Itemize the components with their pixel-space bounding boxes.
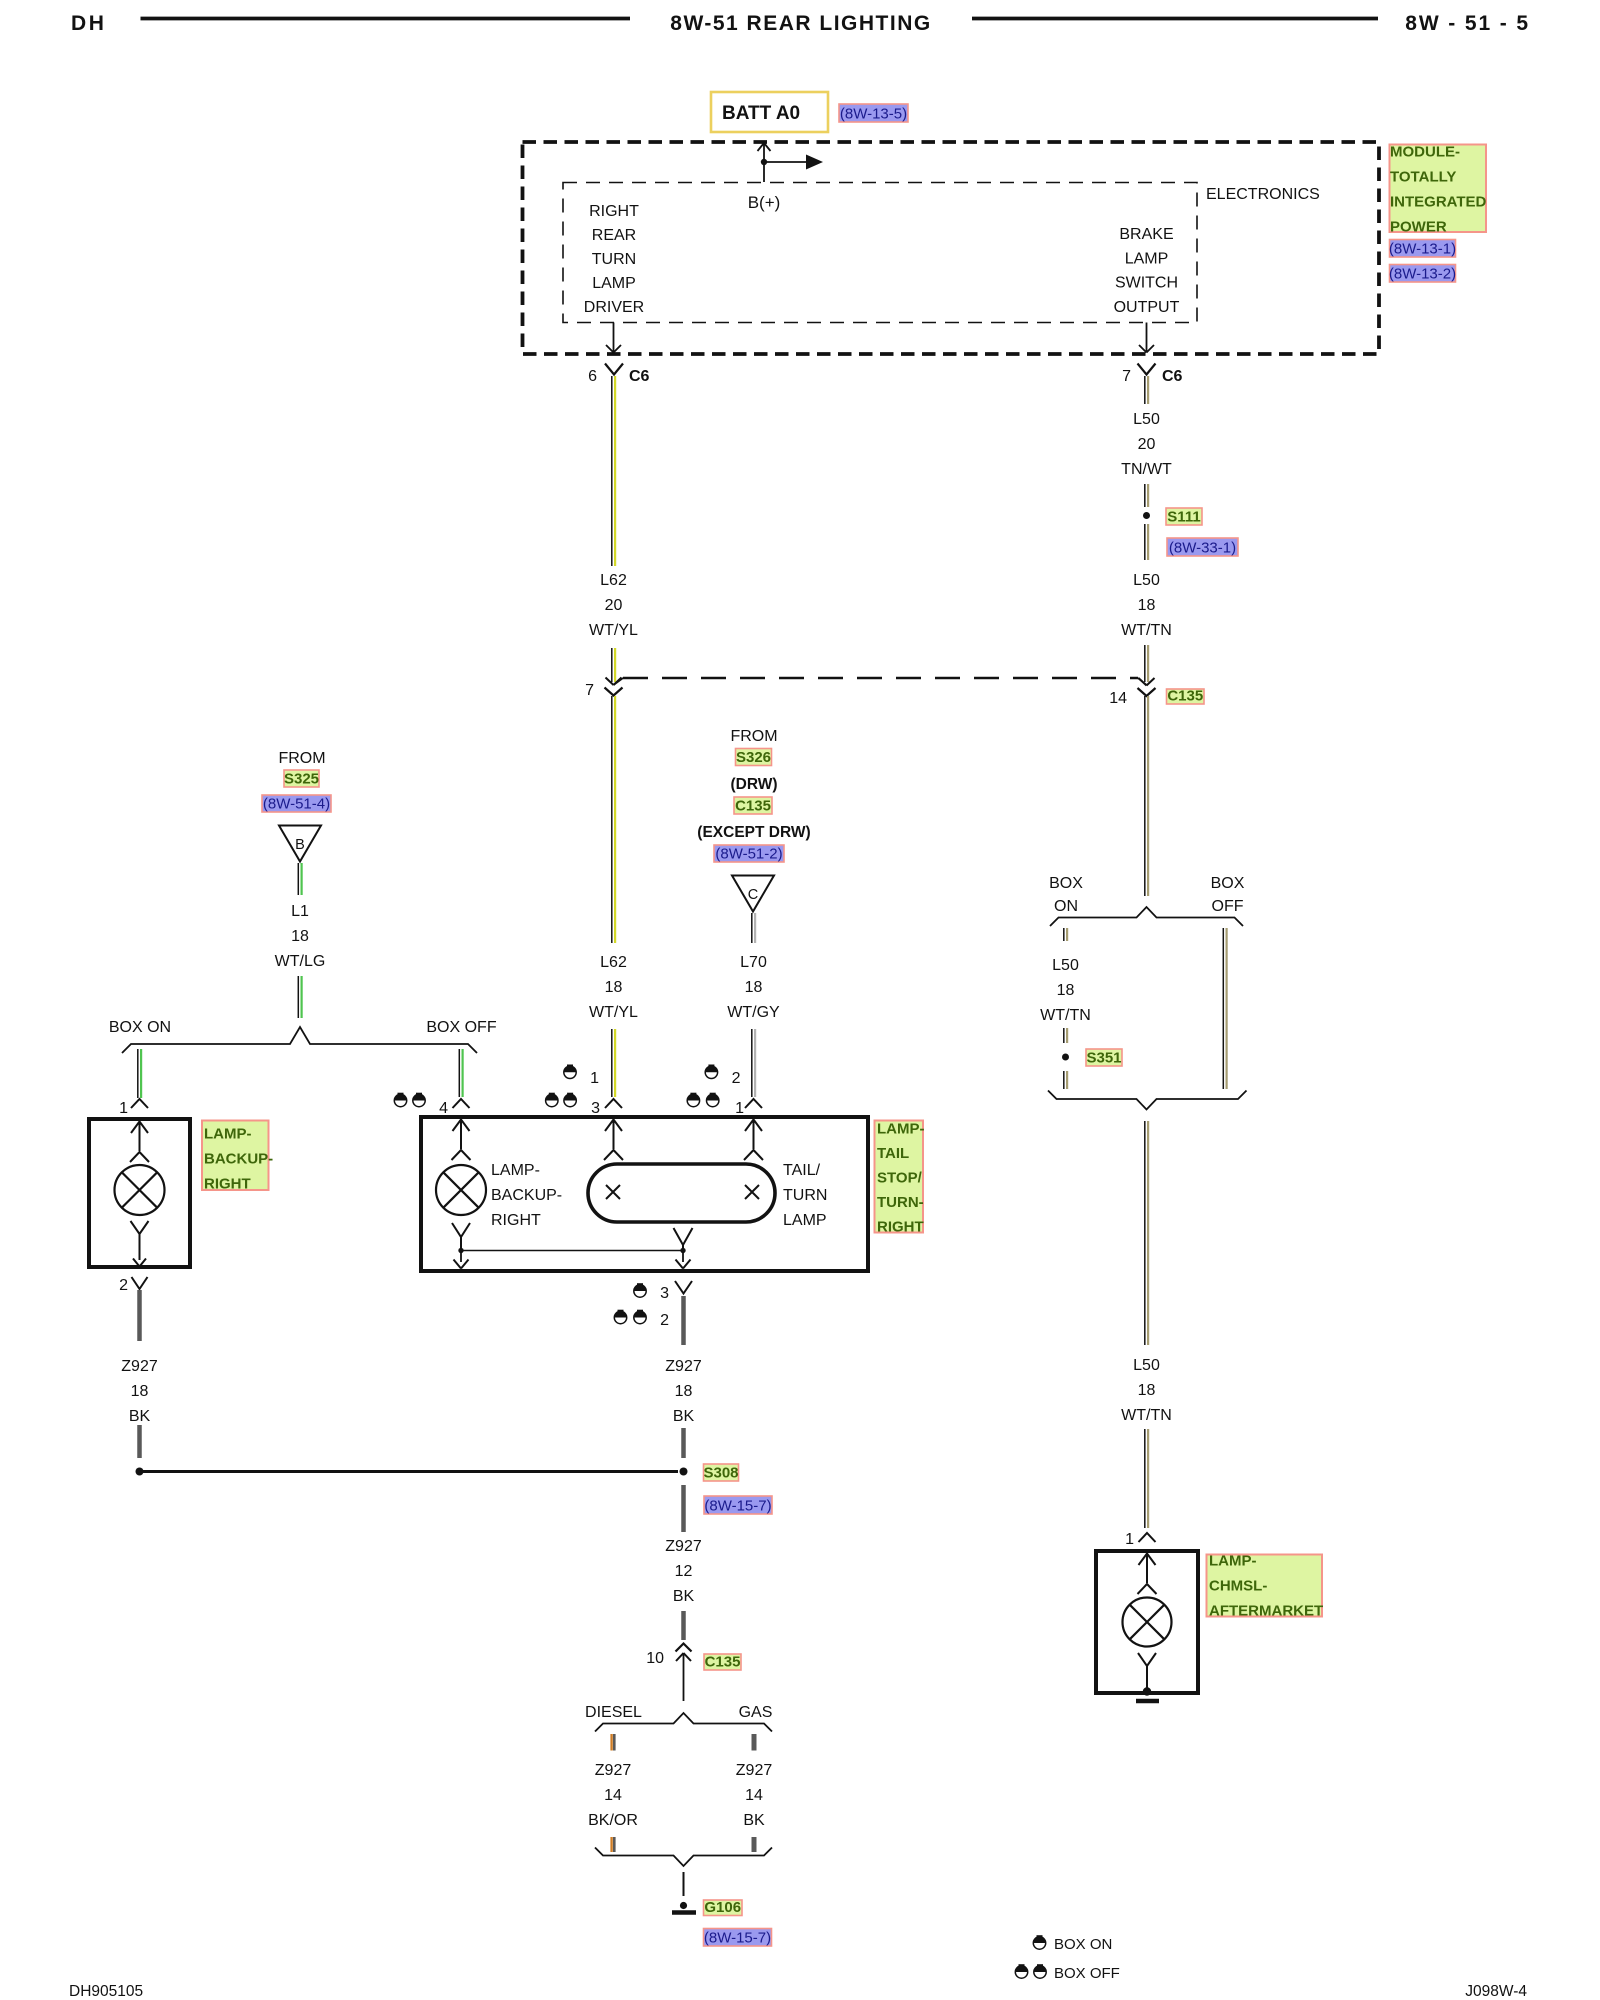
svg-text:(EXCEPT DRW): (EXCEPT DRW)	[697, 824, 810, 841]
svg-text:L1: L1	[291, 903, 309, 920]
connector socket below tail lamp	[675, 1281, 692, 1294]
lamp housing LAMP-BACKUP-RIGHT (separate)	[89, 1119, 190, 1267]
svg-text:POWER: POWER	[1390, 219, 1447, 236]
bulb backup (inside tail lamp)	[436, 1165, 486, 1215]
svg-text:3: 3	[591, 1100, 600, 1117]
connector C135 pin 7 halves	[606, 678, 622, 686]
splice S308	[680, 1468, 688, 1476]
svg-text:BRAKE: BRAKE	[1119, 226, 1173, 243]
case ground symbol	[1136, 1699, 1159, 1704]
svg-text:(8W-51-2): (8W-51-2)	[715, 846, 782, 863]
svg-text:8W-51 REAR LIGHTING: 8W-51 REAR LIGHTING	[670, 12, 931, 35]
connector C135 pin 14 halves	[1139, 678, 1155, 686]
wire L62 18 WT/YL long segment	[611, 696, 613, 943]
feed arrow to other circuits	[764, 161, 806, 163]
connector socket at lamp pin 4	[453, 1099, 470, 1108]
module U1 TIPM outer dashed box	[523, 142, 1380, 354]
wire Z927 14 BK upper segment (gas)	[752, 1734, 757, 1751]
svg-text:L62: L62	[600, 572, 627, 589]
svg-text:18: 18	[291, 928, 309, 945]
svg-text:18: 18	[1057, 982, 1075, 999]
splice S351	[1062, 1054, 1069, 1061]
svg-text:BK: BK	[743, 1812, 765, 1829]
svg-text:TURN-: TURN-	[877, 1194, 924, 1211]
svg-text:WT/TN: WT/TN	[1121, 1407, 1172, 1424]
svg-text:MODULE-: MODULE-	[1390, 144, 1460, 161]
legend box-on icon	[1033, 1935, 1045, 1949]
svg-text:L50: L50	[1052, 957, 1079, 974]
svg-text:Z927: Z927	[736, 1762, 773, 1779]
svg-text:OFF: OFF	[1212, 898, 1244, 915]
svg-text:DRIVER: DRIVER	[584, 299, 644, 316]
svg-text:G106: G106	[704, 1899, 741, 1916]
bulb CHMSL	[1123, 1598, 1172, 1647]
svg-text:BK: BK	[673, 1588, 695, 1605]
svg-text:C: C	[748, 887, 758, 903]
svg-text:AFTERMARKET: AFTERMARKET	[1209, 1603, 1323, 1620]
selection brace box on/off (backup lamp)	[122, 1027, 477, 1053]
wire branch box-on to backup lamp pin 1	[137, 1049, 139, 1098]
ground label G106	[704, 1900, 743, 1916]
wire L1 18 WT/LG segment below triangle B	[297, 863, 299, 895]
svg-text:(8W-51-4): (8W-51-4)	[263, 796, 330, 813]
connector C6 pin 7 socket	[1138, 364, 1156, 375]
pin arrow inside backup lamp	[139, 1121, 141, 1151]
svg-text:(DRW): (DRW)	[730, 776, 777, 793]
svg-text:C135: C135	[1167, 688, 1203, 705]
svg-text:(8W-13-1): (8W-13-1)	[1389, 241, 1456, 258]
svg-text:RIGHT: RIGHT	[589, 203, 639, 220]
svg-text:RIGHT: RIGHT	[491, 1212, 541, 1229]
svg-text:S326: S326	[736, 749, 771, 766]
svg-text:TURN: TURN	[783, 1187, 827, 1204]
svg-text:(8W-15-7): (8W-15-7)	[704, 1498, 771, 1515]
svg-text:L70: L70	[740, 954, 767, 971]
svg-text:18: 18	[1138, 1382, 1156, 1399]
svg-text:REAR: REAR	[592, 227, 636, 244]
off-page connector triangle B	[279, 826, 321, 862]
svg-text:14: 14	[745, 1787, 763, 1804]
svg-text:C6: C6	[629, 368, 650, 385]
wire L62 segment to lamp pin 3	[611, 1029, 613, 1097]
svg-text:TAIL: TAIL	[877, 1145, 909, 1162]
connector C6 pin 6 socket	[605, 364, 623, 375]
case ground junction dot	[1143, 1687, 1151, 1695]
svg-text:SWITCH: SWITCH	[1115, 275, 1178, 292]
svg-text:B(+): B(+)	[748, 193, 781, 212]
svg-text:LAMP: LAMP	[1125, 250, 1169, 267]
wire L1 segment to brace	[297, 976, 299, 1018]
svg-text:LAMP-: LAMP-	[491, 1162, 540, 1179]
junction dot on B(+) feed	[761, 159, 767, 165]
svg-text:18: 18	[605, 979, 623, 996]
box-off icons at lamp pin 3	[546, 1093, 558, 1107]
node B(+) feed wire	[763, 143, 765, 182]
internal ground link junction dots	[458, 1248, 463, 1253]
svg-text:BACKUP-: BACKUP-	[491, 1187, 562, 1204]
box-on icon at ground pin 3	[634, 1283, 646, 1297]
reference label (8W-33-1)	[1167, 538, 1238, 556]
svg-text:BOX OFF: BOX OFF	[1054, 1965, 1120, 1982]
svg-text:WT/LG: WT/LG	[275, 953, 326, 970]
svg-text:BK/OR: BK/OR	[588, 1812, 638, 1829]
pin 6 arrow leaving module	[613, 323, 615, 353]
pin arrow inside lamp (pin 4)	[460, 1119, 462, 1149]
svg-text:2: 2	[660, 1312, 669, 1329]
wire Z927 segment to ground bus	[137, 1425, 142, 1458]
wire Z927 18 BK segment from backup lamp	[137, 1290, 142, 1341]
svg-text:BOX OFF: BOX OFF	[426, 1019, 496, 1036]
bulb lower Y (CHMSL)	[1138, 1653, 1156, 1666]
ground junction dot G106	[680, 1902, 687, 1909]
connector C135 dashed tie line	[614, 678, 624, 685]
reference label (8W-15-7) at G106	[704, 1929, 772, 1947]
svg-text:STOP/: STOP/	[877, 1170, 923, 1187]
svg-text:12: 12	[675, 1563, 693, 1580]
wire segment above splice S111	[1144, 484, 1146, 507]
svg-text:8W - 51 - 5: 8W - 51 - 5	[1405, 12, 1530, 35]
svg-text:CHMSL-: CHMSL-	[1209, 1578, 1267, 1595]
splice label S111	[1166, 508, 1202, 525]
header rule left	[141, 17, 631, 21]
splice label S351	[1086, 1049, 1122, 1066]
wire segment above splice S351	[1063, 1028, 1065, 1043]
wire L50 long segment to box brace	[1144, 696, 1146, 896]
svg-text:2: 2	[732, 1070, 741, 1087]
svg-text:L50: L50	[1133, 572, 1160, 589]
svg-text:7: 7	[1122, 368, 1131, 385]
reference label (8W-13-5)	[839, 104, 908, 122]
svg-text:C135: C135	[735, 798, 771, 815]
svg-text:6: 6	[588, 368, 597, 385]
internal pin arrows to case bottom	[460, 1251, 462, 1263]
wire branch box-off to lamp pin 4	[458, 1049, 460, 1097]
filament x right	[745, 1185, 759, 1199]
svg-text:3: 3	[660, 1285, 669, 1302]
svg-text:J098W-4: J098W-4	[1465, 1983, 1527, 2000]
merge brace to ground	[595, 1848, 772, 1867]
selection brace box on/off (CHMSL)	[1050, 907, 1243, 926]
box-on icon at lamp pin 2/1 (WT/GY)	[705, 1065, 717, 1079]
pin arrow inside lamp (pin 3)	[613, 1119, 615, 1149]
svg-text:4: 4	[439, 1100, 448, 1117]
svg-text:C6: C6	[1162, 368, 1183, 385]
ground symbol G106	[672, 1910, 696, 1915]
ground bus wire to S308	[143, 1470, 678, 1473]
reference label (8W-13-1)	[1390, 240, 1456, 258]
svg-text:20: 20	[605, 597, 623, 614]
svg-text:WT/TN: WT/TN	[1040, 1007, 1091, 1024]
wire L50 18 WT/TN long segment to CHMSL	[1144, 1121, 1146, 1345]
wire branch box-off segment	[1222, 928, 1224, 1089]
svg-text:ON: ON	[1054, 898, 1078, 915]
wire Z927 18 BK from tail lamp	[681, 1296, 686, 1345]
svg-text:TAIL/: TAIL/	[783, 1162, 821, 1179]
selection brace diesel/gas	[595, 1713, 772, 1732]
svg-text:DH: DH	[71, 12, 107, 35]
svg-text:S111: S111	[1167, 509, 1200, 526]
connector socket at CHMSL pin 1	[1139, 1533, 1156, 1542]
svg-text:LAMP: LAMP	[592, 275, 636, 292]
wire L50 segment to C135	[1144, 645, 1146, 682]
svg-text:14: 14	[604, 1787, 622, 1804]
svg-text:S308: S308	[703, 1465, 738, 1482]
svg-text:DH905105: DH905105	[69, 1983, 143, 2000]
svg-text:Z927: Z927	[665, 1358, 702, 1375]
wire Z927 12 BK below S308	[681, 1485, 686, 1532]
ground lead wire	[683, 1872, 685, 1896]
power source box BATT A0	[711, 92, 828, 132]
splice label S308	[704, 1464, 739, 1481]
svg-text:1: 1	[735, 1100, 744, 1117]
reference label (8W-13-2)	[1390, 265, 1456, 283]
svg-text:BATT A0: BATT A0	[722, 103, 800, 124]
svg-text:7: 7	[585, 682, 594, 699]
svg-text:BOX: BOX	[1211, 875, 1245, 892]
pin 7 arrow leaving module	[1146, 323, 1148, 353]
svg-text:(8W-15-7): (8W-15-7)	[704, 1930, 771, 1947]
box-off icons at lamp pin 1	[687, 1093, 699, 1107]
reference label (8W-15-7) at S308	[704, 1496, 772, 1514]
svg-text:Z927: Z927	[665, 1538, 702, 1555]
component label LAMP-TAIL STOP/TURN-RIGHT	[875, 1121, 924, 1233]
svg-text:DIESEL: DIESEL	[585, 1704, 642, 1721]
box-off icons at pin 4	[394, 1093, 406, 1107]
svg-text:BOX ON: BOX ON	[109, 1019, 171, 1036]
junction dot at ground bus left	[136, 1468, 144, 1476]
svg-text:WT/GY: WT/GY	[727, 1004, 780, 1021]
svg-text:TOTALLY: TOTALLY	[1390, 169, 1456, 186]
merge brace below box on/off	[1048, 1091, 1247, 1110]
svg-text:L62: L62	[600, 954, 627, 971]
bulb lower connector Y	[131, 1221, 149, 1234]
wire L62 20 WT/YL upper segment	[611, 376, 613, 566]
svg-text:Z927: Z927	[595, 1762, 632, 1779]
wire L50 segment to CHMSL pin 1	[1144, 1429, 1146, 1528]
svg-text:18: 18	[745, 979, 763, 996]
wire Z927 14 BK/OR upper segment (diesel)	[610, 1734, 612, 1751]
svg-text:1: 1	[119, 1100, 128, 1117]
module name label MODULE-TOTALLY INTEGRATED POWER	[1390, 145, 1487, 233]
splice S111	[1143, 512, 1150, 519]
svg-text:TURN: TURN	[592, 251, 636, 268]
svg-text:BACKUP-: BACKUP-	[204, 1151, 273, 1168]
svg-text:TN/WT: TN/WT	[1121, 461, 1172, 478]
svg-text:14: 14	[1109, 690, 1127, 707]
lamp housing LAMP-TAIL/STOP/TURN-RIGHT	[421, 1117, 868, 1271]
svg-text:1: 1	[1125, 1531, 1134, 1548]
svg-text:2: 2	[119, 1277, 128, 1294]
svg-text:Z927: Z927	[121, 1358, 158, 1375]
bulb backup lamp	[115, 1165, 165, 1215]
svg-text:LAMP-: LAMP-	[1209, 1553, 1257, 1570]
connector C135 pin 10 halves	[676, 1644, 692, 1652]
connector socket at backup lamp pin 2	[132, 1277, 148, 1289]
splice label S325	[284, 770, 319, 787]
svg-text:S325: S325	[284, 771, 319, 788]
svg-text:1: 1	[590, 1070, 599, 1087]
svg-text:BK: BK	[673, 1408, 695, 1425]
reference label (8W-51-4)	[262, 795, 331, 812]
wire Z927 segment to splice S308	[681, 1428, 686, 1458]
legend box-off icons	[1015, 1964, 1027, 1978]
svg-text:INTEGRATED: INTEGRATED	[1390, 194, 1487, 211]
svg-text:LAMP: LAMP	[783, 1212, 827, 1229]
svg-text:18: 18	[1138, 597, 1156, 614]
lamp housing LAMP-CHMSL-AFTERMARKET	[1096, 1551, 1198, 1693]
connector socket at backup lamp pin 1	[131, 1099, 148, 1108]
component label LAMP-BACKUP-RIGHT	[202, 1121, 269, 1191]
pin arrow inside lamp (pin 1)	[753, 1119, 755, 1149]
svg-text:BK: BK	[129, 1408, 151, 1425]
box-on icon at lamp pin 1/3 (WT/YL)	[564, 1065, 576, 1079]
wire L50 20 TN/WT segment	[1144, 376, 1146, 404]
off-page connector triangle C	[732, 876, 774, 912]
svg-text:S351: S351	[1086, 1050, 1121, 1067]
wire segment below splice S351	[1063, 1071, 1065, 1089]
svg-text:LAMP-: LAMP-	[877, 1121, 925, 1138]
svg-text:10: 10	[646, 1650, 664, 1667]
svg-text:LAMP-: LAMP-	[204, 1126, 252, 1143]
svg-text:ELECTRONICS: ELECTRONICS	[1206, 186, 1320, 203]
svg-text:L50: L50	[1133, 411, 1160, 428]
svg-text:WT/YL: WT/YL	[589, 622, 638, 639]
dual filament bulb tail/turn (stadium)	[588, 1164, 775, 1222]
svg-text:GAS: GAS	[739, 1704, 773, 1721]
box-off icons at ground pin 2	[614, 1310, 626, 1324]
reference label (8W-51-2)	[714, 845, 784, 862]
svg-text:WT/YL: WT/YL	[589, 1004, 638, 1021]
wire BK lower segment (gas)	[752, 1837, 757, 1852]
pin arrow inside CHMSL lamp	[1146, 1553, 1148, 1583]
svg-text:18: 18	[675, 1383, 693, 1400]
connector socket at lamp pin 1	[745, 1099, 762, 1108]
wire Z927 segment to C135 pin 10	[681, 1611, 686, 1640]
header rule right	[972, 17, 1378, 21]
svg-text:RIGHT: RIGHT	[877, 1219, 924, 1236]
svg-text:B: B	[295, 837, 305, 853]
svg-text:(8W-33-1): (8W-33-1)	[1169, 540, 1236, 557]
svg-text:RIGHT: RIGHT	[204, 1176, 251, 1193]
svg-text:FROM: FROM	[730, 728, 777, 745]
wire branch box-on upper segment	[1063, 928, 1065, 941]
svg-text:L50: L50	[1133, 1357, 1160, 1374]
svg-text:WT/TN: WT/TN	[1121, 622, 1172, 639]
svg-text:(8W-13-5): (8W-13-5)	[840, 106, 907, 123]
wire BK/OR lower segment (diesel)	[610, 1837, 612, 1852]
connector label C135 (from)	[734, 797, 772, 814]
filament x left	[606, 1185, 620, 1199]
component label LAMP-CHMSL-AFTERMARKET	[1207, 1555, 1323, 1617]
svg-text:BOX: BOX	[1049, 875, 1083, 892]
wire L62 segment to C135	[611, 648, 613, 682]
connector label C135 (bottom)	[704, 1654, 741, 1670]
svg-text:20: 20	[1138, 436, 1156, 453]
connector socket at lamp pin 3	[605, 1099, 622, 1108]
svg-text:18: 18	[131, 1383, 149, 1400]
svg-text:(8W-13-2): (8W-13-2)	[1389, 266, 1456, 283]
module inner electronics dashed box	[563, 183, 1197, 323]
wire L70 segment to lamp pin 1	[751, 1029, 753, 1097]
svg-text:FROM: FROM	[278, 750, 325, 767]
connector label C135	[1167, 689, 1205, 704]
splice label S326	[736, 749, 772, 766]
wire L70 18 WT/GY segment below triangle C	[751, 913, 753, 943]
svg-text:BOX ON: BOX ON	[1054, 1936, 1112, 1953]
wire segment below splice S111	[1144, 524, 1146, 560]
bulb lower Y (backup)	[452, 1223, 470, 1237]
svg-text:OUTPUT: OUTPUT	[1114, 299, 1180, 316]
svg-text:C135: C135	[705, 1654, 741, 1671]
stadium lower Y	[674, 1228, 693, 1245]
